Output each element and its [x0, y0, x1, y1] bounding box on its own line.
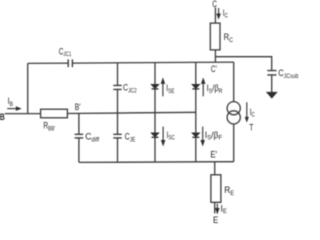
wire C_JCsub to substrate: [271, 75, 273, 93]
wire B' rail: [67, 112, 195, 113]
svg-text:IC: IC: [250, 107, 255, 119]
svg-text:IS/βF: IS/βF: [205, 130, 223, 142]
diode I_SC: [152, 133, 159, 137]
wire C_diff column lower: [78, 138, 80, 163]
arrow I_E down: [216, 204, 218, 209]
wire top rail C' left segment (from riser through C_JC1): [28, 62, 68, 64]
wire right edge lower (current source to E'): [233, 124, 235, 162]
wire right edge upper (C' to current source): [233, 62, 235, 102]
svg-text:IC: IC: [223, 8, 228, 20]
capacitor C_JC1 plates: [68, 59, 72, 67]
wire diode column I_SE/I_SC: [154, 63, 156, 162]
capacitor C_JCsub plates: [267, 71, 276, 75]
diode I_SE: [152, 85, 159, 89]
svg-text:E: E: [213, 215, 219, 224]
svg-text:IS/βR: IS/βR: [207, 82, 223, 95]
svg-text:CJE: CJE: [125, 132, 136, 144]
svg-text:T: T: [249, 123, 253, 133]
wire C_diff column upper: [78, 114, 80, 135]
svg-text:CJC2: CJC2: [123, 83, 137, 95]
resistor R_BB': [41, 109, 68, 118]
arrow I_B: [7, 108, 17, 110]
wire B terminal to R_BB': [5, 113, 41, 115]
substrate arrow (below C_JCsub): [267, 92, 276, 97]
arrow I_S/beta_F down: [202, 127, 204, 141]
svg-text:C′: C′: [211, 64, 217, 74]
svg-text:E′: E′: [210, 149, 217, 160]
arrow I_SC down: [162, 127, 164, 141]
wire top rail C' right segment: [72, 62, 233, 63]
svg-text:CJC1: CJC1: [59, 46, 72, 58]
wire diode column I_S/beta: [195, 63, 197, 163]
svg-text:IB: IB: [8, 96, 14, 108]
resistor R_E: [211, 175, 221, 203]
arrow I_S/beta_R up: [202, 83, 204, 96]
resistor R_C: [210, 23, 220, 50]
svg-text:IE: IE: [221, 203, 227, 215]
wire R_E to E terminal: [214, 202, 216, 213]
arrow I_C top: [218, 8, 220, 14]
arrow I_SE up: [162, 83, 164, 96]
svg-text:RC: RC: [224, 31, 234, 44]
capacitor C_JC2 plates: [113, 85, 121, 89]
svg-text:B′: B′: [75, 102, 81, 112]
wire branch to C_JCsub: [215, 57, 271, 71]
svg-text:C: C: [212, 0, 217, 9]
wire E' node to R_E: [214, 162, 216, 175]
capacitor C_JE plates: [113, 134, 121, 138]
svg-text:Cdiff: Cdiff: [85, 131, 99, 143]
svg-text:RE: RE: [224, 185, 234, 197]
arrow I_CT (right of current source): [246, 102, 248, 118]
svg-text:B: B: [0, 111, 5, 122]
svg-text:CJCsub: CJCsub: [278, 68, 298, 81]
wire R_C to C' node: [214, 50, 216, 62]
wire riser from B to top rail: [27, 63, 29, 113]
svg-text:ISC: ISC: [167, 130, 175, 142]
wire C_JC2/C_JE column: [117, 63, 119, 162]
diode I_S/beta_R: [192, 85, 199, 89]
diode I_S/beta_F: [192, 133, 199, 137]
svg-text:ISE: ISE: [166, 83, 175, 95]
wire E' rail: [79, 161, 234, 164]
capacitor C_diff plates: [75, 134, 84, 138]
svg-text:RBB′: RBB′: [43, 120, 55, 132]
wire C terminal to R_C: [214, 8, 216, 24]
current source I_CT circles: [227, 102, 240, 115]
